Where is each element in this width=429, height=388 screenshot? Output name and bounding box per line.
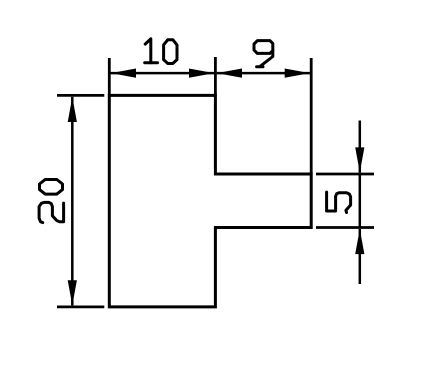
dimension line 5 upper tail (359, 121, 362, 173)
label 5 (rotated) (327, 192, 351, 212)
arrowhead 20 top (68, 97, 77, 122)
dimension line 20 (71, 97, 74, 306)
label 10 (145, 39, 177, 64)
label 20 (rotated) (39, 180, 64, 223)
arrowhead 9 left (217, 69, 242, 78)
extension line top-left horizontal (20 top) (57, 94, 104, 97)
dimension line 5 lower tail (359, 229, 362, 284)
dimension line 5 middle (359, 174, 362, 228)
extension line bottom-left horizontal (20 bottom) (57, 305, 104, 308)
extension line tab-bottom right horizontal (5 bottom) (316, 226, 374, 229)
arrowhead 10 left (111, 69, 136, 78)
extension line right vertical (x=311.2 above tab) (310, 58, 313, 174)
arrowhead 20 bottom (68, 280, 77, 305)
extension line tab-top right horizontal (5 top) (316, 173, 374, 176)
dimension line 9 (217, 72, 310, 75)
arrowhead 9 right (285, 69, 310, 78)
label 9 (254, 41, 273, 67)
arrowhead 5 bottom (points up) (355, 229, 364, 254)
extension line left vertical (x=109.3 above part) (108, 58, 111, 95)
arrowhead 5 top (points down) (355, 147, 364, 172)
arrowhead 10 right (189, 69, 214, 78)
dimension line 10 (111, 72, 215, 75)
part outline (109, 95, 311, 307)
extension line middle vertical (x=215.4 above part) (214, 57, 217, 95)
